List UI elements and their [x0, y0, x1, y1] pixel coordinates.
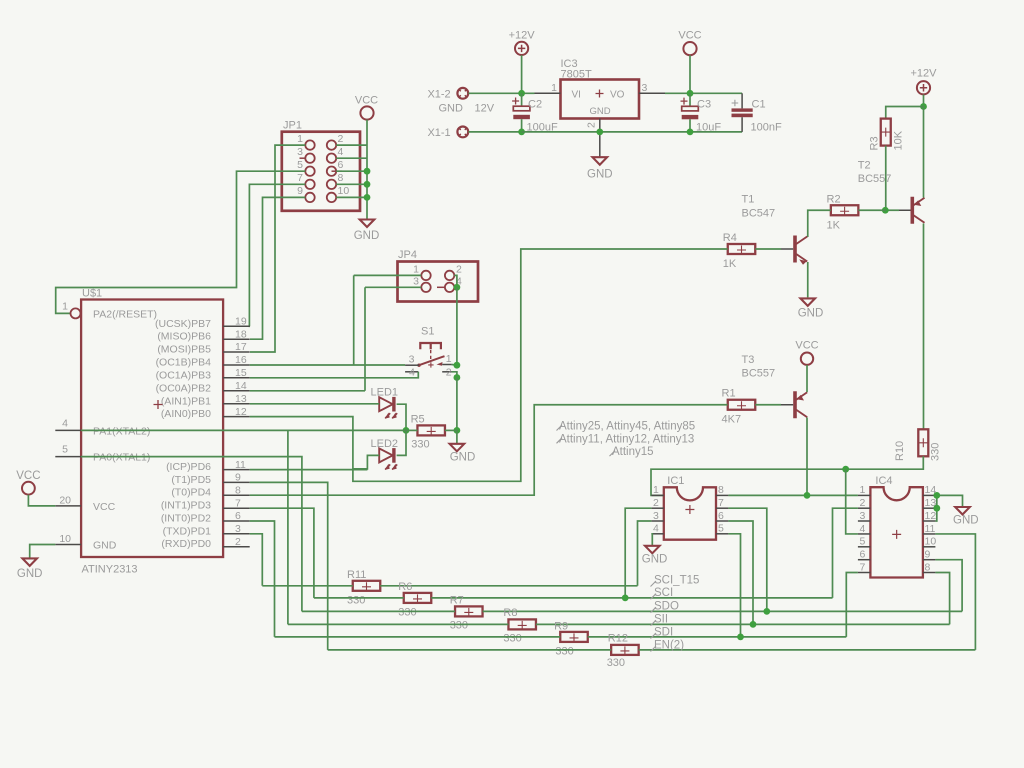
- pin 2 of IC4: [858, 507, 871, 509]
- svg-text:330: 330: [607, 657, 625, 669]
- svg-text:12: 12: [235, 406, 247, 418]
- wire IC1 pin7 to SDO: [728, 508, 766, 611]
- svg-text:PA1(XTAL2): PA1(XTAL2): [93, 425, 150, 437]
- svg-text:R7: R7: [450, 595, 464, 607]
- wire IC4 pin11 to EN: [935, 534, 975, 650]
- svg-text:PA2(/RESET): PA2(/RESET): [93, 308, 157, 320]
- svg-text:6: 6: [235, 510, 241, 522]
- wire riser JP4 pin3: [364, 287, 366, 391]
- svg-text:JP1: JP1: [283, 120, 302, 132]
- svg-text:(MOSI)PB5: (MOSI)PB5: [157, 344, 211, 356]
- svg-text:C3: C3: [697, 99, 711, 111]
- pin 4 of U$1 PA1(XTAL2): [55, 429, 81, 431]
- wire IC1 pin2 to SCI: [625, 508, 651, 598]
- pin 2 of S1: [442, 371, 451, 373]
- resistor R2: [831, 205, 859, 215]
- svg-text:Attiny11, Attiny12, Attiny13: Attiny11, Attiny12, Attiny13: [559, 433, 694, 445]
- junction S1 pin2: [454, 374, 461, 381]
- svg-text:IC1: IC1: [667, 475, 684, 487]
- svg-text:2: 2: [338, 133, 344, 145]
- wire JP1 pin1 to U$1 pin17: [250, 145, 305, 352]
- svg-text:VCC: VCC: [355, 95, 378, 107]
- junction GND rail at C3: [687, 129, 694, 136]
- resistor R10: [918, 429, 928, 456]
- resistor R7: [455, 606, 483, 616]
- wire pin7 row to SCI riser: [250, 508, 314, 598]
- svg-text:GND: GND: [439, 103, 464, 115]
- svg-text:4: 4: [409, 367, 415, 379]
- wire S1 pin2 to column: [452, 372, 457, 378]
- wire IC1 pin5 to SDI: [728, 534, 740, 637]
- pin 1 of IC4: [858, 494, 871, 496]
- junction IC4 pin4 riser: [842, 466, 849, 473]
- svg-text:100nF: 100nF: [751, 122, 782, 134]
- svg-text:SCI_T15: SCI_T15: [654, 575, 699, 587]
- wire T2 emitter to +12V: [923, 107, 925, 198]
- junction S1 pin1: [454, 362, 461, 369]
- svg-text:3: 3: [297, 146, 303, 158]
- svg-text:13: 13: [235, 393, 247, 405]
- svg-text:4K7: 4K7: [722, 414, 742, 426]
- svg-text:EN(2): EN(2): [654, 640, 684, 652]
- svg-text:5: 5: [718, 523, 724, 535]
- wire pin14 row: [250, 390, 365, 392]
- svg-text:17: 17: [235, 341, 247, 353]
- wire pin3 row to SCI_T15 riser: [250, 534, 263, 586]
- svg-text:3: 3: [235, 523, 241, 535]
- ground symbol below T1: [800, 298, 815, 306]
- svg-text:5: 5: [860, 536, 866, 548]
- junction LED node: [403, 427, 410, 434]
- svg-text:10K: 10K: [893, 130, 905, 150]
- wire GND rail: [522, 131, 743, 133]
- pin 15 of U$1 (OC1A)PB3: [223, 377, 250, 379]
- svg-text:R12: R12: [608, 633, 628, 645]
- pin 11 of U$1 (ICP)PD6: [223, 469, 250, 471]
- svg-text:330: 330: [503, 632, 521, 644]
- wire branch to LED2: [353, 455, 379, 469]
- wire T1 emitter down: [807, 262, 809, 297]
- svg-text:(MISO)PB6: (MISO)PB6: [157, 331, 211, 343]
- wire R3 to T2 base node: [885, 146, 887, 211]
- svg-text:12: 12: [925, 510, 937, 522]
- pin 4 of S1: [405, 371, 418, 373]
- resistor R11: [353, 581, 381, 591]
- svg-text:PA0(XTAL1): PA0(XTAL1): [93, 452, 150, 464]
- wire VCC to T3 emitter: [806, 365, 808, 392]
- pin 5 of IC1: [716, 533, 728, 535]
- wire IC4 pin9 to SDO: [935, 560, 962, 612]
- pin 7 of IC4: [858, 572, 871, 574]
- wire pin12 row to R4 riser: [250, 249, 728, 481]
- junction T2 base node: [882, 207, 889, 214]
- power symbol VCC above C3: [683, 42, 696, 55]
- svg-text:2: 2: [653, 497, 659, 509]
- svg-text:3: 3: [860, 510, 866, 522]
- ground symbol right of IC4: [955, 507, 970, 515]
- wire LED2 cathode to node: [397, 430, 406, 455]
- wire riser to IC4 pin 4: [846, 469, 858, 534]
- svg-text:(RXD)PD0: (RXD)PD0: [161, 538, 211, 550]
- svg-text:330: 330: [411, 439, 429, 451]
- svg-text:330: 330: [398, 607, 416, 619]
- pin circle JP4 pin 4: [445, 283, 454, 292]
- svg-text:BC557: BC557: [742, 368, 776, 380]
- pin 6 of IC4: [858, 559, 871, 561]
- pin circles JP1 row 5: [305, 193, 314, 202]
- wire S1 column down to R5 node: [456, 378, 458, 429]
- wire +12V node to R3: [886, 107, 924, 120]
- svg-text:GND: GND: [93, 539, 117, 551]
- pin circles JP1 row 1: [305, 140, 314, 149]
- wire JP4 pin1 row: [354, 274, 422, 276]
- svg-text:R1: R1: [722, 388, 736, 400]
- junction VCC rail at C3: [687, 90, 694, 97]
- svg-text:1: 1: [860, 484, 866, 496]
- svg-text:1K: 1K: [723, 258, 737, 270]
- svg-text:6: 6: [860, 549, 866, 561]
- svg-text:GND: GND: [450, 452, 476, 464]
- svg-text:T1: T1: [742, 194, 755, 206]
- svg-text:5: 5: [297, 159, 303, 171]
- pin stub JP1 pin3: [300, 157, 306, 159]
- pin stub JP1 pin5 right: [332, 170, 343, 172]
- pin 12 of IC4: [923, 520, 936, 522]
- junction JP4 pin4: [454, 284, 461, 291]
- svg-text:11: 11: [925, 523, 936, 535]
- svg-text:330: 330: [347, 595, 365, 607]
- svg-text:X1-2: X1-2: [427, 89, 450, 101]
- pin 3 of IC4: [858, 520, 871, 522]
- pin 2 of U$1 (RXD)PD0: [223, 546, 250, 548]
- svg-text:VCC: VCC: [795, 340, 818, 352]
- wire +12V to node: [521, 55, 523, 93]
- pin 5 of IC4: [858, 546, 871, 548]
- pin 3 of IC3: [639, 92, 665, 94]
- wire pin6 row to SDI riser: [250, 521, 275, 637]
- pin 4 of IC1: [651, 533, 663, 535]
- svg-text:330: 330: [450, 620, 468, 632]
- svg-text:R10: R10: [894, 441, 906, 461]
- svg-text:R5: R5: [411, 414, 425, 426]
- wire JP4 pin4 stub: [454, 286, 457, 288]
- svg-text:3: 3: [642, 82, 648, 94]
- wire SDI row: [275, 636, 561, 638]
- svg-text:R11: R11: [347, 569, 366, 581]
- svg-text:C1: C1: [752, 99, 766, 111]
- svg-text:(TXD)PD1: (TXD)PD1: [163, 525, 212, 537]
- svg-text:18: 18: [235, 328, 247, 340]
- resistor R12: [611, 645, 639, 655]
- svg-text:1: 1: [551, 82, 557, 94]
- pin 17 of U$1 (MOSI)PB5: [223, 351, 250, 353]
- pin 2 of IC3: [599, 119, 601, 158]
- wire SCI row: [314, 597, 404, 599]
- wire VCC to pin 20: [28, 495, 55, 506]
- pin stub JP4 pin4 left: [437, 286, 445, 288]
- pin 1 of S1: [442, 364, 451, 366]
- svg-text:6: 6: [338, 159, 344, 171]
- svg-text:R9: R9: [554, 621, 568, 633]
- svg-text:VCC: VCC: [16, 470, 40, 482]
- svg-text:GND: GND: [590, 106, 611, 117]
- pin 1 of IC1: [651, 494, 663, 496]
- svg-text:16: 16: [235, 354, 247, 366]
- capacitor C3: [689, 93, 691, 106]
- resistor R3: [881, 119, 891, 146]
- svg-text:R4: R4: [723, 232, 737, 244]
- svg-text:15: 15: [235, 367, 247, 379]
- plus mark near AIN1: [154, 400, 163, 409]
- wire R4 to T1 base: [755, 248, 781, 250]
- svg-text:R6: R6: [398, 581, 412, 593]
- junction IC4 pin14: [933, 492, 940, 499]
- ground symbol below JP1: [360, 220, 375, 228]
- pin 9 of U$1 (T1)PD5: [223, 481, 250, 483]
- svg-text:20: 20: [59, 494, 71, 506]
- svg-text:7: 7: [860, 561, 866, 573]
- pin 3 of U$1 (TXD)PD1: [223, 533, 250, 535]
- svg-text:+12V: +12V: [911, 68, 938, 80]
- svg-text:3: 3: [409, 353, 415, 365]
- svg-text:JP4: JP4: [398, 249, 417, 261]
- svg-text:BC547: BC547: [742, 208, 776, 220]
- wire PA1 row through body to LED node: [81, 429, 406, 431]
- wire JP1 pin7 to U$1 pin19: [249, 184, 305, 326]
- svg-text:7: 7: [235, 497, 241, 509]
- svg-text:(T1)PD5: (T1)PD5: [171, 474, 211, 486]
- wire pin16 row to S1 pin3: [250, 364, 405, 366]
- wire IC4 pins 14-13-12 tie: [935, 495, 962, 521]
- pin 13 of IC4: [923, 507, 936, 509]
- junction GND rail at C2: [518, 129, 525, 136]
- svg-text:4: 4: [338, 146, 344, 158]
- wire IC1 pin4 to GND: [650, 534, 653, 546]
- pin circles JP1 row 4: [305, 180, 314, 189]
- wire R2 to T1 collector: [808, 210, 831, 237]
- wire +12V down: [923, 95, 925, 107]
- wire pin13 row to LED1: [250, 403, 380, 405]
- svg-text:T2: T2: [858, 160, 871, 172]
- capacitor C1: [741, 93, 743, 108]
- wire JP4 pin2 to pin4 node: [454, 275, 457, 287]
- svg-text:330: 330: [555, 646, 573, 658]
- wire PA0 row to SDO riser: [81, 457, 302, 612]
- svg-text:SII: SII: [654, 614, 668, 626]
- pin 9 of IC4: [923, 559, 936, 561]
- power symbol VCC above T3: [801, 353, 813, 365]
- pin 6 of U$1 (INT0)PD2: [223, 520, 250, 522]
- svg-text:5: 5: [62, 444, 68, 456]
- ground symbol below S1 column: [450, 444, 465, 452]
- svg-text:7: 7: [718, 497, 724, 509]
- svg-text:10: 10: [59, 533, 71, 545]
- junction JP1 pin8: [364, 181, 371, 188]
- svg-text:X1-1: X1-1: [427, 127, 450, 139]
- svg-text:8: 8: [925, 561, 931, 573]
- pin 16 of U$1 (OC1B)PB4: [223, 364, 250, 366]
- wire S1 pin1 to column: [452, 364, 457, 367]
- wire R1 to T3 base: [755, 404, 781, 406]
- svg-text:10: 10: [925, 536, 937, 548]
- pin 1 inversion bubble U$1: [71, 308, 81, 318]
- svg-text:9: 9: [235, 472, 241, 484]
- svg-text:19: 19: [235, 316, 247, 328]
- svg-text:SDI: SDI: [654, 627, 673, 639]
- svg-text:SCI: SCI: [654, 587, 673, 599]
- svg-text:(INT1)PD3: (INT1)PD3: [161, 500, 211, 512]
- svg-text:SDO: SDO: [654, 601, 679, 613]
- svg-text:330: 330: [930, 443, 942, 461]
- pin 6 of IC1: [716, 520, 728, 522]
- svg-text:VO: VO: [610, 89, 625, 100]
- svg-text:7: 7: [297, 172, 303, 184]
- wire PA1 branch down to SII row: [287, 430, 289, 624]
- wire IC1 pin6 to SII: [728, 521, 753, 624]
- wire JP1 pin9 to U$1 pin18: [250, 197, 305, 339]
- ground symbol below IC3: [593, 157, 608, 165]
- resistor R9: [560, 632, 588, 642]
- pin 8 of U$1 (T0)PD4: [223, 494, 250, 496]
- svg-text:GND: GND: [17, 568, 43, 580]
- pin circles JP1 row 3: [305, 167, 314, 176]
- svg-text:(T0)PD4: (T0)PD4: [171, 487, 211, 499]
- junction SDO at IC1 pin7: [763, 608, 770, 615]
- svg-text:(INT0)PD2: (INT0)PD2: [161, 513, 211, 525]
- junction SII at IC1 pin6: [750, 621, 757, 628]
- svg-text:S1: S1: [421, 326, 434, 338]
- junction SCI at IC1 pin2: [622, 595, 629, 602]
- svg-text:12V: 12V: [475, 103, 495, 115]
- wire VCC to JP1 pin2 column: [366, 120, 368, 219]
- wire riser JP4 pin1: [353, 275, 355, 365]
- svg-text:T3: T3: [742, 354, 755, 366]
- ground symbol below IC1: [645, 546, 660, 554]
- power symbol +12V (right): [917, 81, 930, 94]
- svg-text:1K: 1K: [827, 220, 841, 232]
- svg-text:(AIN0)PB0: (AIN0)PB0: [161, 408, 211, 420]
- pin 2 of IC1: [651, 507, 663, 509]
- wire IC4 pin7 to SDI: [846, 573, 858, 637]
- wire SDO row: [302, 610, 455, 612]
- wire pin9 row to EN riser: [250, 482, 328, 650]
- svg-text:(ICP)PD6: (ICP)PD6: [166, 461, 211, 473]
- svg-text:2: 2: [446, 366, 452, 378]
- pin 10 of IC4: [923, 546, 936, 548]
- power symbol +12V (input): [515, 42, 528, 55]
- power symbol VCC above JP1: [360, 106, 373, 119]
- wire LED1 cathode to node: [397, 404, 406, 430]
- wire JP4 column down to S1: [456, 287, 458, 365]
- resistor R8: [508, 619, 536, 629]
- svg-text:1: 1: [62, 301, 68, 313]
- svg-text:3: 3: [413, 275, 419, 287]
- svg-text:GND: GND: [354, 230, 380, 242]
- wire R10 to row net: [651, 456, 923, 495]
- svg-text:6: 6: [718, 510, 724, 522]
- wire T2 collector down to R10: [923, 224, 925, 430]
- svg-text:2: 2: [456, 263, 462, 275]
- wire X1-2 to IC3 VI: [469, 92, 535, 94]
- svg-text:2: 2: [235, 536, 241, 548]
- base wire T2: [886, 209, 899, 211]
- svg-text:VCC: VCC: [93, 501, 116, 513]
- pin 20 of U$1 VCC: [55, 505, 81, 507]
- wire IC4 pin8 to SII: [935, 573, 949, 625]
- svg-text:4: 4: [653, 523, 659, 535]
- svg-text:(UCSK)PB7: (UCSK)PB7: [155, 318, 211, 330]
- svg-text:IC4: IC4: [875, 475, 892, 487]
- resistor R6: [404, 593, 432, 603]
- svg-text:3: 3: [653, 510, 659, 522]
- wire IC1 pin8 to IC4 pin1: [728, 494, 858, 496]
- pin 14 of U$1 (OC0A)PB2: [223, 390, 250, 392]
- wire R5 leads: [406, 429, 417, 431]
- svg-text:LED1: LED1: [371, 387, 399, 399]
- svg-text:1: 1: [653, 484, 659, 496]
- wires JP1 right pins to column: [336, 144, 367, 146]
- pin 3 of IC1: [651, 520, 663, 522]
- svg-text:ATINY2313: ATINY2313: [82, 564, 138, 576]
- wire T3 collector down: [806, 418, 808, 496]
- svg-text:VI: VI: [572, 89, 581, 100]
- svg-text:1: 1: [446, 353, 452, 365]
- svg-text:GND: GND: [642, 554, 668, 566]
- svg-text:Attiny15: Attiny15: [612, 446, 654, 458]
- pin 19 of U$1 (UCSK)PB7: [223, 325, 250, 327]
- svg-text:2: 2: [586, 122, 598, 128]
- pin 14 of IC4: [923, 494, 936, 496]
- svg-text:9: 9: [925, 549, 931, 561]
- pin 12 of U$1 (AIN0)PB0: [223, 416, 250, 418]
- wire JP4 pin3 row: [365, 286, 421, 288]
- junction R5 right node: [454, 427, 461, 434]
- wire R2 to T2 base node: [858, 209, 885, 211]
- junction T3 collector at IC4 pin1 net: [804, 492, 811, 499]
- resistor R1: [728, 400, 756, 410]
- wire IC1 pin3 to SCI_T15: [638, 521, 652, 586]
- svg-text:(OC1A)PB3: (OC1A)PB3: [156, 369, 212, 381]
- wire pin8 row to R1 riser: [250, 405, 728, 495]
- svg-text:2: 2: [860, 497, 866, 509]
- wire column to GND: [456, 430, 458, 443]
- svg-text:1: 1: [413, 263, 419, 275]
- svg-text:BC557: BC557: [858, 173, 892, 185]
- svg-text:(OC1B)PB4: (OC1B)PB4: [156, 357, 212, 369]
- pin 8 of IC1: [716, 494, 728, 496]
- svg-text:4: 4: [62, 417, 68, 429]
- resistor R4: [728, 244, 756, 254]
- svg-text:VCC: VCC: [678, 30, 701, 42]
- svg-text:GND: GND: [587, 169, 613, 181]
- svg-text:10uF: 10uF: [696, 122, 721, 134]
- junction at IC3 GND pin: [596, 129, 603, 136]
- pin 4 of IC4: [858, 533, 871, 535]
- junction IC4 pin13: [933, 505, 940, 512]
- junction +12V node: [920, 103, 927, 110]
- svg-text:R2: R2: [827, 194, 841, 206]
- pin 13 of U$1 (AIN1)PB1: [223, 403, 250, 405]
- pin circle JP4 pin 1: [421, 271, 430, 280]
- svg-text:10: 10: [338, 185, 350, 197]
- svg-text:9: 9: [297, 185, 303, 197]
- svg-text:(OC0A)PB2: (OC0A)PB2: [156, 382, 212, 394]
- wire SII row: [288, 623, 509, 625]
- svg-text:11: 11: [235, 459, 246, 471]
- wire IC4 pin2 to SCI: [833, 508, 858, 598]
- junction JP1 pin6: [364, 168, 371, 175]
- junction +12V rail: [518, 90, 525, 97]
